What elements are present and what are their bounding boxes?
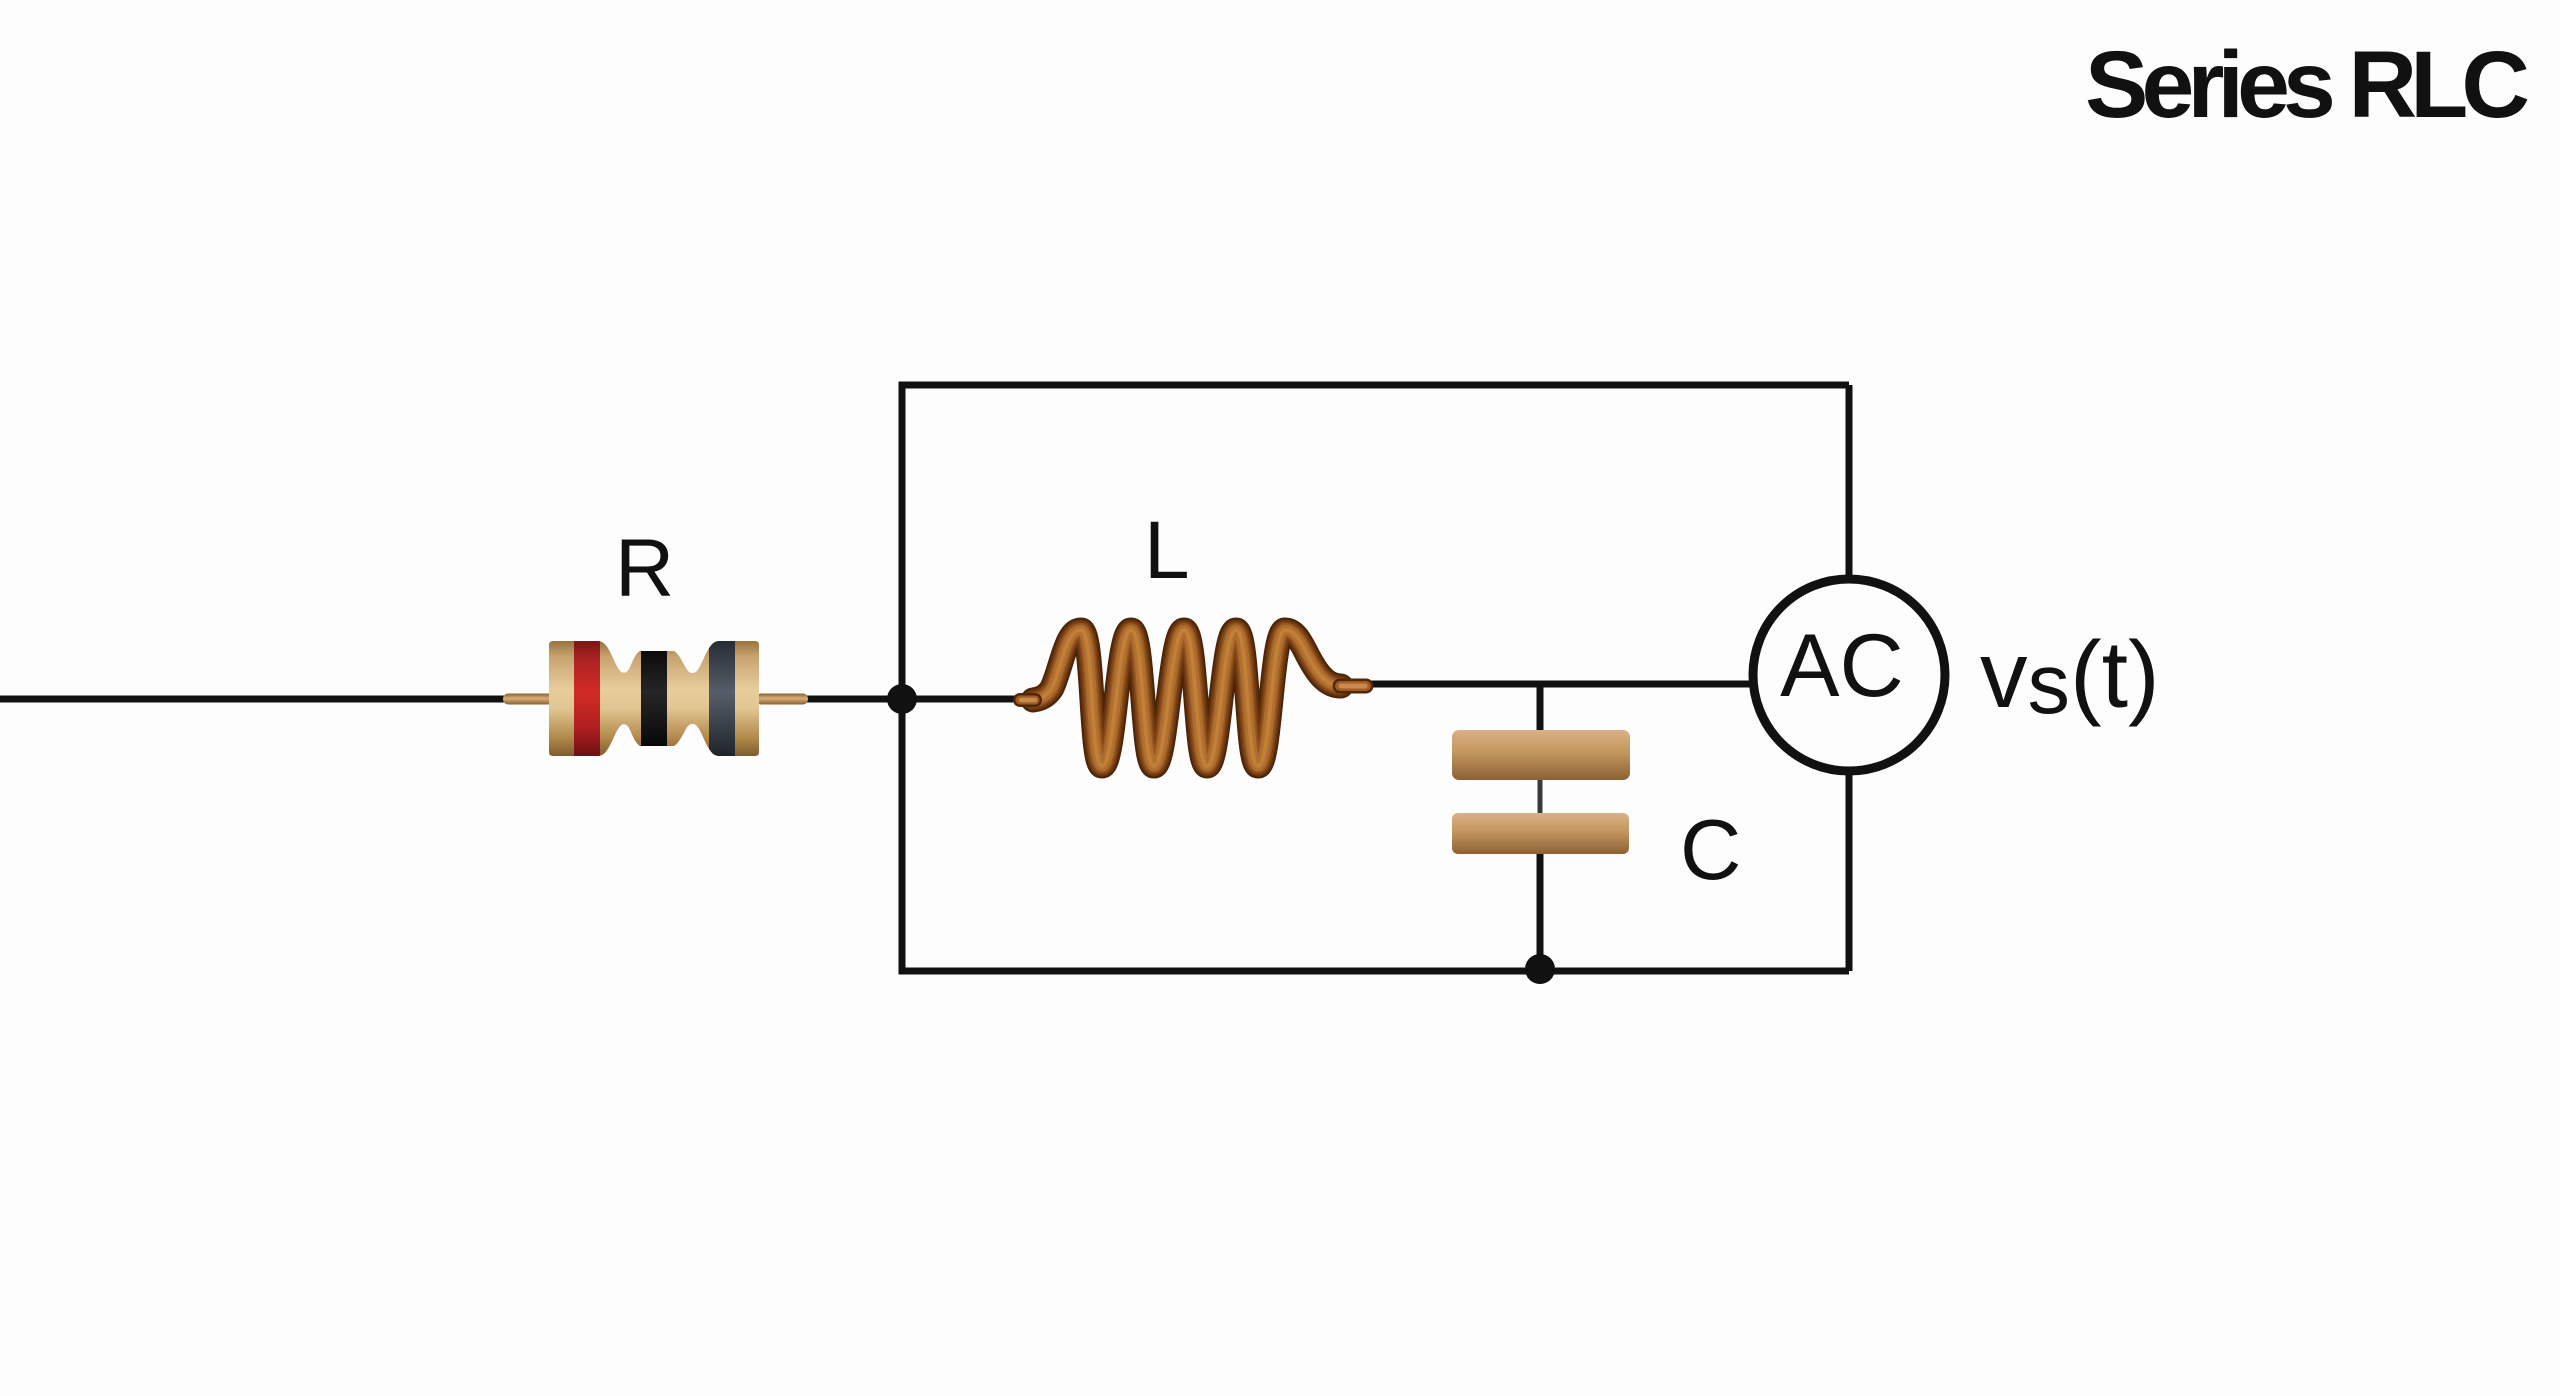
svg-text:L: L — [1144, 505, 1190, 596]
svg-text:Series RLC: Series RLC — [2085, 32, 2530, 138]
svg-text:C: C — [1680, 803, 1741, 898]
svg-text:R: R — [615, 523, 674, 614]
svg-text:AC: AC — [1780, 615, 1904, 715]
svg-text:vs(t): vs(t) — [1980, 622, 2160, 732]
